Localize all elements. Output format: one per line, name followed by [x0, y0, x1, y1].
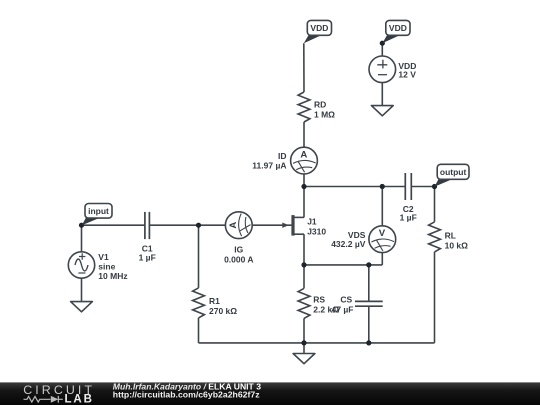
wire CS top	[368, 265, 370, 301]
svg-text:RS: RS	[313, 295, 325, 305]
flag input	[82, 204, 112, 226]
node output	[432, 184, 437, 189]
wire C2 to output	[411, 186, 434, 188]
voltage source V1 sine 10 MHz	[68, 252, 127, 281]
svg-text:1 MΩ: 1 MΩ	[314, 110, 335, 120]
ground under V1	[71, 302, 93, 312]
svg-text:47 µF: 47 µF	[332, 305, 354, 315]
svg-text:http://circuitlab.com/c6yb2a2h: http://circuitlab.com/c6yb2a2h62f7z	[113, 390, 260, 400]
node ground junction	[301, 340, 306, 345]
svg-text:0.000 A: 0.000 A	[224, 254, 253, 264]
capacitor C2 1 µF	[400, 173, 417, 222]
wire RL bottom	[434, 252, 436, 343]
node drain	[301, 184, 306, 189]
wire VDS column	[381, 187, 383, 265]
voltmeter VDS 432.2 µV	[331, 226, 396, 253]
ground under VDD source	[371, 106, 393, 116]
wire V1 bottom	[81, 278, 83, 301]
svg-text:RD: RD	[314, 99, 326, 109]
node CS bottom	[366, 340, 371, 345]
svg-text:V: V	[379, 228, 386, 239]
node VDD flag	[380, 41, 385, 46]
flag VDD left	[304, 20, 332, 43]
wire VDD flag to RD	[303, 43, 305, 92]
ground bottom center	[293, 354, 315, 364]
flag VDD right	[382, 20, 410, 43]
node CS top	[366, 262, 371, 267]
transistor J1 J310 N-JFET	[282, 215, 326, 236]
svg-text:1 µF: 1 µF	[139, 252, 156, 262]
svg-text:input: input	[88, 206, 109, 216]
wire CS bottom	[368, 307, 370, 343]
wire bottom row	[199, 342, 435, 344]
svg-text:12 V: 12 V	[398, 69, 416, 79]
wire RL top	[434, 187, 436, 222]
svg-text:sine: sine	[98, 261, 115, 271]
svg-text:ID: ID	[278, 151, 287, 161]
svg-text:R1: R1	[209, 296, 220, 306]
svg-text:output: output	[440, 167, 467, 177]
svg-text:RL: RL	[445, 231, 456, 241]
svg-text:VDD: VDD	[389, 23, 407, 33]
wire R1 bottom	[198, 318, 200, 343]
node source	[301, 262, 306, 267]
resistor RD 1 MΩ	[298, 92, 335, 122]
wire V1 top	[81, 225, 83, 252]
wire RD to ID	[303, 122, 305, 147]
svg-text:VDD: VDD	[310, 23, 328, 33]
resistor RL 10 kΩ	[429, 222, 469, 252]
capacitor CS 47 µF	[332, 295, 383, 315]
resistor RS 2.2 kΩ	[298, 288, 339, 318]
wire ground stub	[303, 343, 305, 354]
svg-text:CS: CS	[340, 295, 352, 305]
capacitor C1 1 µF	[139, 212, 156, 263]
voltage source VDD 12 V	[369, 56, 416, 83]
svg-text:A: A	[228, 222, 239, 229]
svg-text:270 kΩ: 270 kΩ	[209, 306, 237, 316]
resistor R1 270 kΩ	[193, 288, 238, 318]
wire RS top	[303, 265, 305, 289]
wire JFET source down	[303, 234, 305, 265]
svg-text:432.2 µV: 432.2 µV	[331, 239, 366, 249]
svg-text:IG: IG	[234, 244, 243, 254]
flag output	[435, 164, 469, 186]
svg-text:J1: J1	[307, 216, 317, 226]
svg-text:A: A	[300, 150, 307, 161]
svg-text:1 µF: 1 µF	[400, 212, 417, 222]
wire drain row to C2	[304, 186, 405, 188]
svg-text:J310: J310	[307, 226, 326, 236]
wire VDD source to ground	[381, 83, 383, 106]
wire gate row left of C1	[82, 224, 145, 226]
svg-text:10 MHz: 10 MHz	[98, 271, 127, 281]
svg-text:11.97 µA: 11.97 µA	[252, 160, 286, 170]
svg-text:V1: V1	[98, 252, 109, 262]
wire gate row C1 to JFET	[149, 224, 293, 226]
node VDS top	[380, 184, 385, 189]
node R1 top	[196, 223, 201, 228]
svg-text:10 kΩ: 10 kΩ	[445, 241, 469, 251]
footer bar	[0, 381, 540, 405]
wire RS bottom	[303, 318, 305, 343]
ammeter ID 11.97 µA	[252, 147, 317, 174]
wire source row	[304, 264, 382, 266]
wire ID to JFET drain	[303, 174, 305, 217]
wire R1 top	[198, 225, 200, 288]
svg-text:LAB: LAB	[65, 394, 94, 405]
node input/gate	[79, 223, 84, 228]
ammeter IG 0.000 A	[224, 212, 253, 264]
wire VDD source top	[381, 43, 383, 56]
